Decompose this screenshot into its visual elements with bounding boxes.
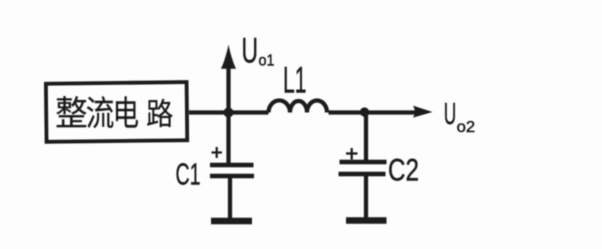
svg-text:L1: L1	[283, 59, 307, 100]
ground bar below C2	[346, 217, 387, 224]
svg-text:o2: o2	[457, 119, 476, 136]
rectifier box (整流电路)	[46, 82, 187, 142]
wire: node B to output arrow	[364, 110, 416, 114]
svg-text:o1: o1	[259, 53, 275, 70]
ground bar below C1	[211, 218, 252, 225]
node A junction dot	[224, 108, 234, 118]
wire: box output to node A	[189, 110, 230, 114]
capacitor C2 plates	[339, 162, 387, 174]
arrowhead of U_o1	[221, 45, 236, 69]
wire: C1 branch from node A down to plate	[226, 113, 230, 165]
arrowhead of U_o2	[413, 106, 433, 118]
label U_o2	[444, 96, 476, 136]
svg-text:U: U	[444, 96, 457, 131]
node B junction dot	[360, 107, 369, 116]
box label char 整	[56, 96, 86, 127]
wire: C1 lower plate to ground	[228, 176, 232, 219]
inductor L1 winding	[269, 100, 328, 112]
capacitor C2 polarity plus	[346, 148, 358, 160]
wire: node A to inductor	[227, 110, 269, 114]
capacitor C1 polarity plus	[212, 147, 223, 158]
box label char 路	[147, 99, 173, 127]
wire: U_o1 branch riser	[226, 62, 230, 113]
svg-text:C1: C1	[176, 157, 201, 192]
svg-text:U: U	[242, 30, 259, 70]
capacitor C1 plates	[210, 165, 254, 176]
wire: inductor to node B	[329, 110, 365, 114]
box label char 流	[87, 96, 114, 128]
wire: C2 lower plate to ground	[364, 174, 368, 219]
svg-text:C2: C2	[388, 152, 419, 188]
box label char 电	[116, 96, 138, 127]
wire: C2 branch from node B down to plate	[364, 113, 368, 163]
label U_o1	[242, 30, 275, 70]
